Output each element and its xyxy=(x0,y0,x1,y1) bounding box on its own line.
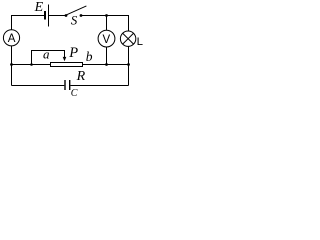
svg-text:b: b xyxy=(86,49,93,64)
svg-text:R: R xyxy=(76,69,86,84)
svg-text:S: S xyxy=(71,13,78,28)
svg-text:P: P xyxy=(68,45,78,61)
svg-text:V: V xyxy=(103,34,111,46)
svg-text:C: C xyxy=(71,88,78,97)
svg-text:L: L xyxy=(137,36,143,48)
svg-text:a: a xyxy=(43,47,50,62)
svg-text:E: E xyxy=(34,0,44,15)
svg-text:A: A xyxy=(8,33,16,45)
